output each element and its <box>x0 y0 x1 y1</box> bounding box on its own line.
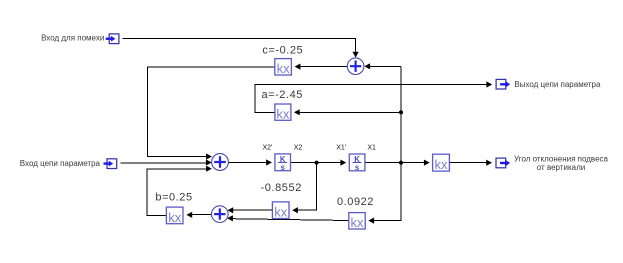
svg-text:s: s <box>355 163 360 172</box>
arrow into sum S2 middle <box>206 159 212 165</box>
arrowheads <box>186 52 492 224</box>
node kx a feed <box>399 110 403 114</box>
svg-text:Вход цепи параметра: Вход цепи параметра <box>20 159 101 168</box>
gain kx output <box>433 154 450 172</box>
sum S1 <box>347 58 364 75</box>
arrow into kx b <box>186 212 192 218</box>
wire noise input to sum S1 <box>123 39 356 52</box>
svg-text:s: s <box>281 163 286 172</box>
svg-text:kx: kx <box>168 210 182 225</box>
svg-text:Выход цепи параметра: Выход цепи параметра <box>514 80 601 89</box>
arrow into kx gain <box>424 160 430 166</box>
arrow into kx 0.0922 <box>368 218 374 224</box>
arrow into output port Ugol <box>486 160 492 166</box>
arrow into kx c <box>295 64 301 70</box>
sum S3 <box>212 206 229 223</box>
svg-text:kx: kx <box>351 215 365 230</box>
svg-text:kx: kx <box>277 61 291 76</box>
arrow into sum S1 right <box>364 63 370 69</box>
svg-text:X1': X1' <box>336 145 346 152</box>
gain kx c <box>275 59 292 77</box>
wire feedback x1 into sum S1 right <box>370 65 401 67</box>
svg-text:X2': X2' <box>263 145 273 152</box>
input port 1 (noise) <box>106 34 119 44</box>
arrow into integrator X1 <box>340 160 346 166</box>
svg-text:Вход для помехи: Вход для помехи <box>41 33 104 42</box>
svg-text:kx: kx <box>276 107 290 122</box>
wire node X2 down to kx -0.8552 input <box>297 163 316 211</box>
svg-text:kx: kx <box>274 205 288 220</box>
svg-text:0.0922: 0.0922 <box>337 196 374 208</box>
wire input port 2 to sum S2 middle input <box>120 162 206 164</box>
wire kx 0.0922 output to sum S3 <box>232 219 349 221</box>
wire sum S2 output to integrator X2 <box>228 161 266 163</box>
output port 1 (Vyhod) <box>496 79 510 89</box>
node X1 output <box>399 161 403 165</box>
wire kx gain to output port Ugol <box>450 162 487 164</box>
arrow into sum S3 upper <box>227 207 233 213</box>
svg-text:от вертикали: от вертикали <box>537 163 585 172</box>
svg-text:c=-0.25: c=-0.25 <box>262 44 303 56</box>
wire kx a output to output port Vyhod <box>255 85 487 113</box>
svg-text:kx: kx <box>435 157 449 172</box>
integrator X2 <box>275 154 291 172</box>
wire sum S3 output to kx b <box>192 213 212 215</box>
wire node 401 to kx a input <box>299 111 401 113</box>
arrow into kx -0.8552 <box>292 207 298 213</box>
arrow into kx a <box>294 109 300 115</box>
integrator X1 <box>349 154 365 172</box>
node X2 output <box>315 161 319 165</box>
input port 2 (parameter) <box>104 159 117 169</box>
arrow into output port Vyhod <box>486 81 492 87</box>
arrow into sum S2 bottom <box>206 166 212 172</box>
wire vertical bus x=401 down to kx 0.0922 <box>374 66 401 220</box>
arrow into sum S2 top <box>206 153 212 159</box>
wire sum S1 output to kx c <box>300 65 347 67</box>
gain kx a <box>275 104 291 122</box>
svg-text:X1: X1 <box>367 145 376 152</box>
arrow into sum S1 top <box>353 52 359 58</box>
svg-text:X2: X2 <box>294 145 303 152</box>
wire integrator X1 output to kx gain <box>365 162 424 164</box>
gain kx 0.0922 <box>349 213 365 231</box>
svg-text:b=0.25: b=0.25 <box>155 191 192 203</box>
sum S2 <box>212 154 229 171</box>
wire kx c output down to sum S2 top input <box>148 67 275 157</box>
output port 2 (Ugol) <box>496 158 510 168</box>
arrow into integrator X2 <box>266 159 272 165</box>
wire kx -0.8552 output to sum S3 <box>233 209 273 211</box>
wire integrator X2 output to integrator X1 <box>291 162 341 164</box>
gain kx b <box>166 207 183 225</box>
svg-text:-0.8552: -0.8552 <box>260 182 302 194</box>
wire kx b output up to sum S2 bottom input <box>147 169 206 215</box>
arrow into sum S3 lower <box>227 215 233 221</box>
gain kx -0.8552 <box>272 202 289 220</box>
svg-text:Угол отклонения подвеса: Угол отклонения подвеса <box>514 154 609 163</box>
svg-text:a=-2.45: a=-2.45 <box>261 89 302 101</box>
junction dots <box>315 110 404 165</box>
